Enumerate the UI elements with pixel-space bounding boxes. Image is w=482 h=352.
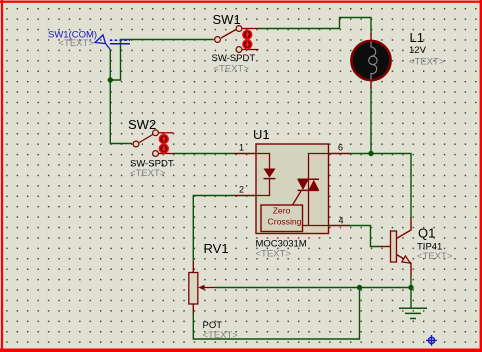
svg-text:SW1: SW1: [213, 12, 241, 27]
marker blue crosshair: [426, 335, 437, 346]
junction node B: [368, 151, 373, 156]
svg-text:SW-SPDT: SW-SPDT: [212, 53, 256, 64]
junction node A: [108, 77, 113, 82]
wire: SW2 bottom throw to U1 pin 1: [174, 153, 236, 155]
U1 pin 6 lead: [329, 153, 350, 155]
wire: SW1 common to junction: [110, 40, 214, 81]
junction node D: [408, 285, 413, 290]
svg-text:12V: 12V: [409, 45, 427, 56]
svg-text:1: 1: [239, 143, 244, 153]
switch SW1: [215, 26, 259, 53]
switch SW2: [133, 130, 173, 157]
SW2 toggle button down: [159, 144, 168, 153]
junction node C: [357, 285, 362, 290]
wire: U1 pin 4 to Q1 base: [350, 226, 380, 247]
wire: lamp L1 bottom down to node B: [370, 88, 372, 154]
terminal SW1(COM): [95, 35, 130, 50]
svg-text:<TEXT>: <TEXT>: [409, 57, 445, 68]
wire: junction down to SW2 common: [110, 80, 132, 144]
resistor RV1 (potentiometer): [189, 262, 215, 314]
U1 pin 2 lead: [235, 195, 256, 197]
svg-text:Zero: Zero: [273, 206, 291, 216]
transistor Q1: [380, 217, 411, 276]
U1 pin 4 lead: [329, 225, 351, 227]
wire: U1 pin 2 to RV1 top: [193, 196, 235, 262]
svg-text:2: 2: [239, 185, 244, 195]
SW1 toggle button down: [243, 40, 252, 49]
SW1 toggle button up: [243, 30, 252, 39]
wire: Q1 emitter down to node D: [410, 276, 412, 288]
svg-text:SW2: SW2: [128, 117, 156, 132]
U1 internal LED: [256, 154, 276, 196]
U1 zero crossing block: [261, 205, 329, 232]
svg-text:<TEXT>: <TEXT>: [417, 251, 453, 262]
svg-text:<TEXT>: <TEXT>: [256, 249, 292, 260]
svg-text:RV1: RV1: [204, 241, 229, 256]
wire: RV1 wiper to node C: [215, 287, 360, 289]
svg-text:<TEXT>: <TEXT>: [59, 38, 95, 49]
wire: node B left to U1 pin 6: [350, 153, 372, 155]
svg-text:L1: L1: [410, 30, 424, 45]
wire: node C to node D (emitter/ground): [360, 287, 412, 289]
svg-text:U1: U1: [253, 127, 270, 142]
U1 internal triac: [293, 154, 329, 226]
svg-text:<TEXT>: <TEXT>: [214, 64, 250, 75]
wire: SW1(COM) terminal drop to junction: [109, 50, 111, 81]
wire: SW1 top throw to lamp L1 top: [259, 18, 372, 35]
svg-text:6: 6: [338, 143, 343, 153]
svg-text:<TEXT>: <TEXT>: [130, 168, 166, 179]
U1 pin 1 lead: [235, 153, 256, 155]
op-amp U1 body (MOC3031M optocoupler): [256, 144, 329, 234]
lamp L1: [351, 33, 390, 89]
svg-text:Crossing: Crossing: [268, 217, 302, 227]
ground: [399, 308, 427, 318]
svg-text:<TEXT>: <TEXT>: [203, 330, 239, 341]
svg-text:4: 4: [339, 216, 344, 226]
SW2 toggle button up: [159, 135, 168, 144]
wire: node C down/left/up to RV1 bottom: [193, 288, 359, 340]
wire: node B right and down to Q1 collector: [371, 154, 411, 218]
wire: node D down to ground: [410, 288, 412, 308]
svg-text:Q1: Q1: [418, 226, 435, 241]
